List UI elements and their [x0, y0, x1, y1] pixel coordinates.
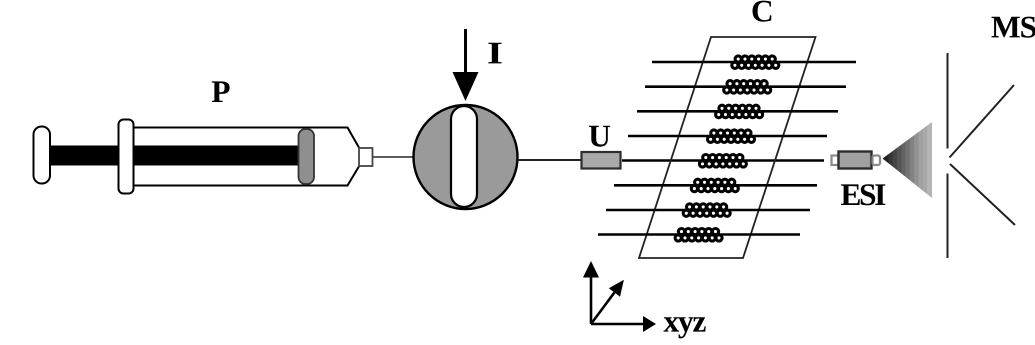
ESI union left tab [832, 156, 840, 166]
electrode wire 3 [637, 110, 838, 113]
electrode wire 8 [598, 233, 800, 236]
plunger flange [119, 120, 134, 194]
electrode wire 6 [614, 184, 817, 187]
plunger seal [299, 129, 315, 184]
MS skimmer lower [950, 164, 1015, 225]
electrode wire 7 [606, 209, 810, 212]
coil 5 [699, 155, 746, 168]
label U [589, 126, 610, 147]
z axis head [609, 280, 624, 297]
z axis shaft [591, 293, 614, 325]
arrow I shaft [464, 29, 467, 74]
coil 2 [724, 81, 771, 94]
coil 7 [683, 204, 730, 217]
label P [212, 81, 230, 102]
ESI union right tab [873, 156, 881, 166]
arrow I head [453, 72, 479, 101]
coil 8 [675, 229, 722, 242]
coil 4 [708, 130, 755, 143]
plunger rod [48, 146, 300, 166]
chip C outline [639, 37, 816, 258]
label xyz [664, 317, 706, 338]
y axis head [583, 261, 599, 278]
union U [582, 152, 621, 169]
main line U to ESI [622, 159, 824, 162]
coil 6 [691, 179, 738, 192]
label C [753, 1, 772, 22]
tube syringe to valve [373, 156, 415, 158]
line valve to union U [518, 159, 583, 161]
electrode wire 2 [645, 85, 846, 88]
MS skimmer upper [950, 85, 1015, 158]
plunger end cap [34, 127, 51, 184]
label MS [992, 17, 1035, 38]
ESI union body [839, 152, 872, 169]
electrode wire 1 [652, 61, 856, 64]
syringe barrel [133, 128, 360, 186]
spray cone [883, 122, 933, 198]
label ESI [841, 184, 885, 205]
syringe tip [359, 148, 373, 166]
injection valve body [414, 105, 518, 209]
coil 3 [716, 105, 763, 118]
x axis head [643, 316, 656, 332]
coil 1 [732, 56, 779, 69]
label I [488, 43, 501, 64]
y axis shaft [590, 277, 593, 324]
axes origin: x axis shaft [591, 323, 644, 326]
valve rotor slot [451, 106, 477, 207]
MS inlet plate upper [947, 53, 949, 149]
electrode wire 4 [628, 135, 827, 138]
MS inlet plate lower [947, 174, 949, 259]
